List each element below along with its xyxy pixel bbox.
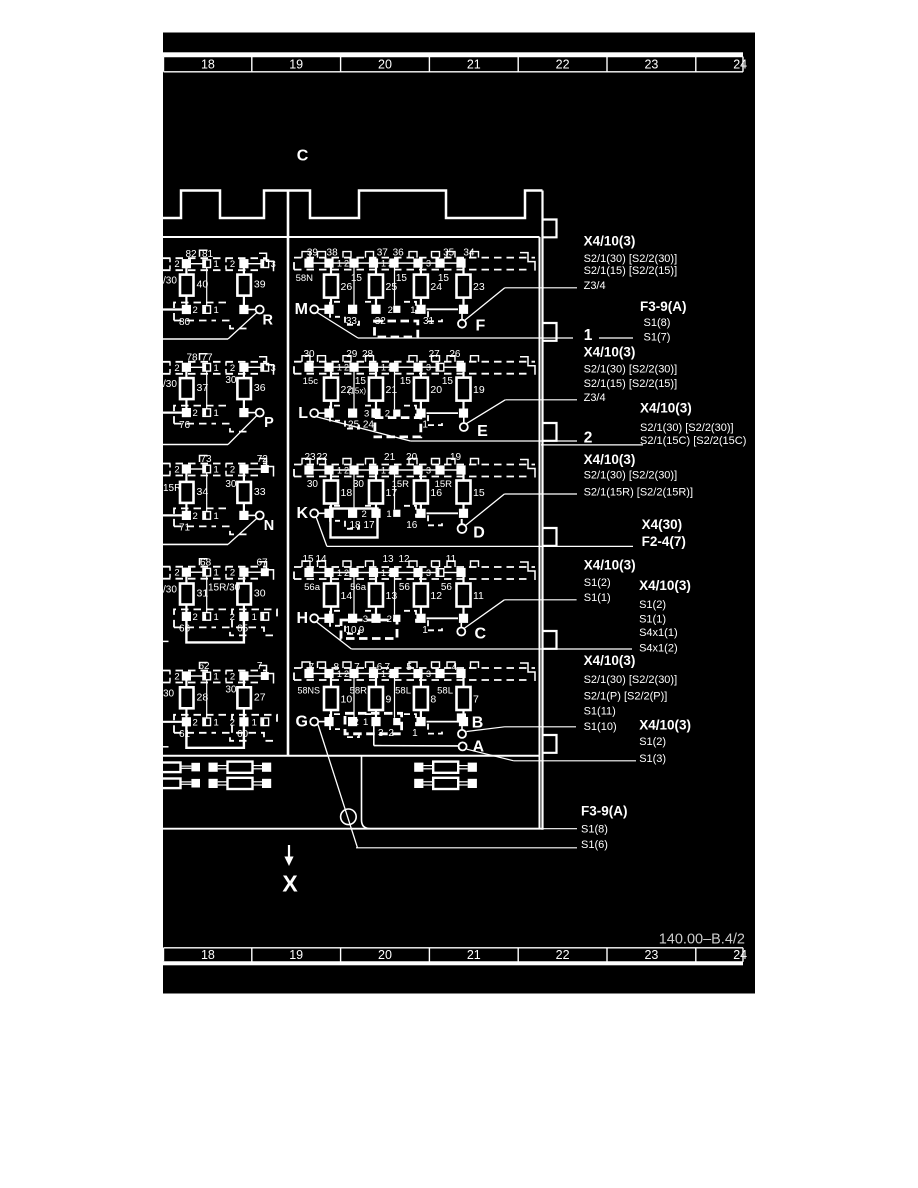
svg-text:1: 1 xyxy=(214,363,219,374)
row 4R terminal dashed outline xyxy=(294,566,535,568)
svg-text:Z3/4: Z3/4 xyxy=(584,392,606,404)
svg-text:1: 1 xyxy=(214,305,219,316)
svg-text:12: 12 xyxy=(398,554,410,565)
row 4R lower dashed outline xyxy=(330,611,340,626)
svg-text:2: 2 xyxy=(388,465,393,475)
svg-text:56a: 56a xyxy=(350,582,367,593)
row 1L contact squares bottom xyxy=(163,308,182,310)
terminal D and wire to S2/1(15R) xyxy=(461,519,463,524)
relay contact 13 (row 4R) xyxy=(375,577,377,584)
row 2L terminal dashed outline xyxy=(163,361,267,363)
row 3L outline ticks xyxy=(169,464,171,476)
svg-text:19: 19 xyxy=(289,57,303,71)
svg-text:1: 1 xyxy=(381,568,386,578)
relay contact 37 (row 2L) xyxy=(185,372,187,378)
row 1R heavy dashed box xyxy=(375,321,418,337)
svg-text:33: 33 xyxy=(254,486,266,498)
relay contact 15 (row 3R) xyxy=(462,474,464,480)
svg-text:3: 3 xyxy=(426,258,431,268)
svg-text:30: 30 xyxy=(303,349,315,360)
svg-text:G: G xyxy=(296,713,308,730)
svg-text:11: 11 xyxy=(446,554,457,565)
row 5L link wire open contacts xyxy=(206,680,208,718)
relay contact 40 (row 1L) xyxy=(185,268,187,275)
relay contact 22 (row 2R) xyxy=(330,372,332,378)
svg-text:S1(10): S1(10) xyxy=(584,721,617,733)
svg-text:F2-4(7): F2-4(7) xyxy=(642,534,686,549)
svg-text:1: 1 xyxy=(337,363,342,373)
svg-text:3: 3 xyxy=(426,669,431,679)
svg-text:S2/1(30) [S2/2(30)]: S2/1(30) [S2/2(30)] xyxy=(640,422,734,434)
svg-text:31: 31 xyxy=(423,316,435,327)
svg-text:S2/1(30) [S2/2(30)]: S2/1(30) [S2/2(30)] xyxy=(584,470,678,482)
row 5R contact squares bottom xyxy=(324,717,333,726)
svg-text:58L: 58L xyxy=(437,686,453,697)
row 3R link wires xyxy=(353,474,355,510)
svg-text:2: 2 xyxy=(388,669,393,679)
row 5R heavy dashed box xyxy=(345,713,402,734)
svg-text:26: 26 xyxy=(449,349,461,360)
lower section fuse link unit A1 xyxy=(209,763,218,772)
row 4L contact squares bottom xyxy=(182,612,191,621)
outer box bottom edge xyxy=(163,828,543,830)
svg-text:2: 2 xyxy=(388,363,393,373)
svg-text:1: 1 xyxy=(381,258,386,268)
relay contact 7 (row 5R) xyxy=(462,678,464,687)
svg-text:10: 10 xyxy=(341,694,353,706)
rows bottom line xyxy=(163,755,540,757)
svg-text:2: 2 xyxy=(193,612,198,623)
terminal ring near box corner xyxy=(341,809,357,825)
svg-text:X4/10(3): X4/10(3) xyxy=(640,401,692,416)
row 1L bracket step xyxy=(259,253,274,271)
svg-text:3: 3 xyxy=(271,259,276,270)
svg-text:2: 2 xyxy=(388,258,393,268)
svg-text:7: 7 xyxy=(257,661,263,672)
row 3L lower dashed outline xyxy=(174,508,230,526)
callout line S4x1(2) from H xyxy=(351,648,632,650)
svg-text:S2/1(30) [S2/2(30)]: S2/1(30) [S2/2(30)] xyxy=(584,674,678,686)
svg-text:82: 82 xyxy=(185,249,197,260)
svg-text:76: 76 xyxy=(179,420,191,431)
svg-text:35: 35 xyxy=(443,248,455,259)
svg-text:140.00–B.4/2: 140.00–B.4/2 xyxy=(659,932,745,948)
row 3R lower dashed outline xyxy=(330,506,340,521)
svg-text:3: 3 xyxy=(426,568,431,578)
svg-text:S1(2): S1(2) xyxy=(639,736,666,748)
svg-text:37: 37 xyxy=(377,248,389,259)
right edge connector tab 5 xyxy=(543,631,557,649)
svg-text:29: 29 xyxy=(346,349,358,360)
svg-text:2: 2 xyxy=(193,511,198,522)
svg-text:1: 1 xyxy=(252,717,257,728)
svg-text:1: 1 xyxy=(412,728,418,739)
svg-text:E: E xyxy=(477,423,488,440)
svg-text:56a: 56a xyxy=(304,582,321,593)
svg-text:C: C xyxy=(297,148,309,165)
relay contact 27 (row 5L) xyxy=(243,680,245,687)
row 1R terminal dashed outline xyxy=(294,257,535,259)
svg-text:C: C xyxy=(475,626,487,643)
svg-text:2: 2 xyxy=(230,465,235,476)
svg-text:1: 1 xyxy=(381,363,386,373)
row 2L lower dashed outline xyxy=(174,406,230,424)
svg-text:9: 9 xyxy=(386,694,392,706)
svg-text:H: H xyxy=(296,610,308,627)
svg-text:2: 2 xyxy=(344,568,349,578)
relay contact 19 (row 2R) xyxy=(462,372,464,378)
svg-text:58N: 58N xyxy=(296,273,314,284)
callout line S1(3) from A xyxy=(514,760,636,762)
svg-text:30: 30 xyxy=(163,688,175,699)
svg-text:23: 23 xyxy=(644,57,658,71)
svg-text:19: 19 xyxy=(289,948,303,962)
inner box right edge rail xyxy=(539,237,541,829)
row 1L lower dashed outline xyxy=(174,303,230,321)
row 2L link wire open contacts xyxy=(206,371,208,409)
top ruler band xyxy=(163,52,743,56)
right edge connector tab 1 xyxy=(543,220,557,238)
svg-text:S1(8): S1(8) xyxy=(644,317,671,329)
svg-text:S2/1(15R) [S2/2(15R)]: S2/1(15R) [S2/2(15R)] xyxy=(584,487,693,499)
relay contact 11 (row 4R) xyxy=(462,577,464,584)
wire G to terminal ring xyxy=(318,725,358,848)
svg-text:21: 21 xyxy=(386,384,398,396)
svg-text:27: 27 xyxy=(254,691,266,703)
svg-text:F: F xyxy=(476,318,486,335)
row 1R lower dashed outline xyxy=(330,302,340,317)
row 1L link wire open contacts xyxy=(206,268,208,306)
svg-text:67: 67 xyxy=(256,557,268,568)
svg-text:2: 2 xyxy=(388,305,393,316)
svg-text:1: 1 xyxy=(214,465,219,476)
svg-text:2: 2 xyxy=(361,509,366,520)
svg-text:3: 3 xyxy=(426,465,431,475)
relay contact 10 (row 5R) xyxy=(330,678,332,687)
svg-text:58L: 58L xyxy=(395,686,411,697)
row 4L bracket step xyxy=(259,562,274,580)
relay contact 18 (row 3R) xyxy=(330,474,332,480)
right edge connector tab 2 xyxy=(543,323,557,341)
svg-text:17: 17 xyxy=(363,520,375,531)
svg-text:N: N xyxy=(264,518,274,534)
svg-text:1: 1 xyxy=(337,465,342,475)
svg-text:39: 39 xyxy=(254,279,266,291)
row 1R contact squares bottom xyxy=(324,305,333,314)
svg-text:X4/10(3): X4/10(3) xyxy=(584,452,636,467)
svg-text:L: L xyxy=(298,405,308,422)
svg-text:2: 2 xyxy=(344,465,349,475)
lower section fuse link row 2 left (cut) xyxy=(159,779,181,789)
svg-text:20: 20 xyxy=(406,452,418,463)
svg-text:1: 1 xyxy=(214,717,219,728)
row 2R terminal dashed outline xyxy=(294,361,535,363)
svg-text:30: 30 xyxy=(307,479,319,490)
relay contact 8 (row 5R) xyxy=(420,678,422,687)
svg-text:36: 36 xyxy=(393,248,405,259)
svg-text:2: 2 xyxy=(230,672,235,683)
svg-text:21: 21 xyxy=(384,452,396,463)
svg-text:71: 71 xyxy=(179,523,191,534)
svg-text:1: 1 xyxy=(214,612,219,623)
wire from P to row line xyxy=(228,416,257,445)
svg-text:F3-9(A): F3-9(A) xyxy=(581,803,628,818)
svg-text:22: 22 xyxy=(556,948,570,962)
row 5L U link xyxy=(186,726,244,748)
svg-text:S2/1(15) [S2/2(15)]: S2/1(15) [S2/2(15)] xyxy=(584,265,678,277)
relay contact 14 (row 4R) xyxy=(330,577,332,584)
row 1R contact squares top xyxy=(304,259,313,268)
row 2L bracket step xyxy=(259,357,274,375)
row 2R contact squares bottom xyxy=(324,409,333,418)
svg-text:2: 2 xyxy=(193,717,198,728)
relay contact 16 (row 3R) xyxy=(420,474,422,480)
svg-text:S1(2): S1(2) xyxy=(584,577,611,589)
row 4R heavy dashed box xyxy=(341,620,397,639)
svg-text:8: 8 xyxy=(430,694,436,706)
svg-text:18: 18 xyxy=(201,948,215,962)
row 2L boundary line xyxy=(163,444,228,446)
svg-text:S1(6): S1(6) xyxy=(581,839,608,851)
relay contact 26 (row 1R) xyxy=(330,268,332,275)
svg-text:21: 21 xyxy=(467,57,481,71)
svg-text:38: 38 xyxy=(327,248,339,259)
svg-text:30: 30 xyxy=(254,588,266,600)
svg-text:S1(2): S1(2) xyxy=(639,599,666,611)
svg-text:9: 9 xyxy=(359,625,365,636)
svg-text:X: X xyxy=(282,871,298,897)
svg-text:2: 2 xyxy=(388,568,393,578)
wire L to callout 2 xyxy=(315,416,410,441)
svg-text:1: 1 xyxy=(410,305,415,316)
right edge connector tab 6 xyxy=(543,735,557,753)
relay contact 25 (row 1R) xyxy=(375,268,377,275)
svg-text:S1(1): S1(1) xyxy=(584,592,611,604)
svg-text:15: 15 xyxy=(442,376,454,387)
svg-text:24: 24 xyxy=(430,281,442,293)
svg-text:X4/10(3): X4/10(3) xyxy=(639,578,691,593)
svg-text:15R: 15R xyxy=(163,483,181,494)
row 2R link wires xyxy=(353,371,355,409)
row 1L terminal dashed outline xyxy=(163,257,267,259)
callout line 2 from L xyxy=(410,440,577,442)
svg-text:56: 56 xyxy=(441,582,453,593)
svg-text:28: 28 xyxy=(362,349,374,360)
svg-text:1: 1 xyxy=(252,612,257,623)
svg-text:2: 2 xyxy=(584,430,593,447)
svg-text:X4/10(3): X4/10(3) xyxy=(584,558,636,573)
svg-text:7: 7 xyxy=(473,694,479,706)
svg-text:10: 10 xyxy=(345,625,357,636)
row 3R solid box xyxy=(331,509,378,538)
wire M to callout 1 xyxy=(317,312,359,338)
lower section fuse link unit A2 xyxy=(209,779,218,788)
svg-text:24: 24 xyxy=(733,57,747,71)
row 2L outline ticks xyxy=(169,362,171,374)
svg-text:56: 56 xyxy=(399,582,411,593)
svg-text:5: 5 xyxy=(406,662,412,673)
row 4R link wires xyxy=(353,576,355,614)
svg-text:39: 39 xyxy=(307,248,319,259)
row 3R terminal dashed outline xyxy=(294,464,535,466)
row 5R link wires xyxy=(353,677,355,718)
svg-text:18: 18 xyxy=(201,57,215,71)
terminal A and its feed wire xyxy=(373,722,375,746)
svg-text:1: 1 xyxy=(214,511,219,522)
svg-text:22: 22 xyxy=(556,57,570,71)
svg-text:/30: /30 xyxy=(163,276,177,287)
right edge connector tab 3 xyxy=(543,423,557,441)
svg-text:13: 13 xyxy=(382,554,394,565)
svg-text:S2/1(15C) [S2/2(15C): S2/1(15C) [S2/2(15C) xyxy=(640,435,746,447)
svg-text:2: 2 xyxy=(193,305,198,316)
svg-text:/30: /30 xyxy=(163,585,177,596)
relay contact 23 (row 1R) xyxy=(462,268,464,275)
terminal R (row 1L) xyxy=(248,309,255,311)
relay contact 24 (row 1R) xyxy=(420,268,422,275)
svg-text:2: 2 xyxy=(230,259,235,270)
svg-text:15c: 15c xyxy=(303,376,319,387)
svg-text:58R: 58R xyxy=(350,686,368,697)
callout line 1 from M xyxy=(358,337,573,339)
svg-text:15: 15 xyxy=(355,376,367,387)
svg-text:12: 12 xyxy=(430,590,442,602)
svg-text:X4/10(3): X4/10(3) xyxy=(584,234,636,249)
wire from N to row line xyxy=(228,518,257,544)
row 5R terminal dashed outline xyxy=(294,667,535,669)
svg-text:3: 3 xyxy=(271,363,276,374)
callout line S1(8) bottom xyxy=(543,828,578,830)
svg-text:X4/10(3): X4/10(3) xyxy=(584,344,636,359)
svg-text:S1(7): S1(7) xyxy=(644,331,671,343)
svg-text:X4(30): X4(30) xyxy=(642,517,683,532)
relay contact 28 (row 5L) xyxy=(185,680,187,687)
svg-text:21: 21 xyxy=(467,948,481,962)
svg-text:Z3/4: Z3/4 xyxy=(584,280,606,292)
wire A to S1(3) xyxy=(467,749,514,761)
svg-text:16: 16 xyxy=(406,520,418,531)
lower section fuse link unit B2 xyxy=(414,779,423,788)
terminal P (row 2L) xyxy=(248,412,255,414)
svg-text:27: 27 xyxy=(429,349,441,360)
relay contact 33 (row 3L) xyxy=(243,473,245,482)
svg-text:30: 30 xyxy=(225,375,237,386)
svg-text:2: 2 xyxy=(174,259,179,270)
row 4L link wire open contacts xyxy=(206,576,208,613)
svg-text:1: 1 xyxy=(386,509,391,520)
svg-text:19: 19 xyxy=(450,452,462,463)
terminal B and wire to S1(10) xyxy=(457,713,466,722)
svg-text:R: R xyxy=(262,313,273,329)
svg-text:S2/1(30) [S2/2(30)]: S2/1(30) [S2/2(30)] xyxy=(584,364,678,376)
svg-text:66: 66 xyxy=(179,624,191,635)
callout line Z3/4 row2 from E xyxy=(505,399,577,401)
svg-text:S4x1(1): S4x1(1) xyxy=(639,627,678,639)
relay contact 12 (row 4R) xyxy=(420,577,422,584)
row 2L contact squares bottom xyxy=(163,412,182,414)
svg-text:15: 15 xyxy=(473,487,485,499)
relay contact 17 (row 3R) xyxy=(375,474,377,480)
svg-text:2: 2 xyxy=(344,258,349,268)
row 2R contact squares top xyxy=(304,363,313,372)
row 2R lower dashed outline xyxy=(330,406,340,421)
svg-text:2: 2 xyxy=(174,465,179,476)
svg-text:1: 1 xyxy=(214,408,219,419)
svg-text:2: 2 xyxy=(174,568,179,579)
svg-text:14: 14 xyxy=(315,554,327,565)
svg-text:81: 81 xyxy=(202,249,214,260)
svg-text:20: 20 xyxy=(430,384,442,396)
svg-text:77: 77 xyxy=(201,353,213,364)
row 3L bracket step xyxy=(259,459,274,477)
svg-text:1: 1 xyxy=(363,717,368,728)
row 3R contact squares bottom xyxy=(324,509,333,518)
svg-text:36: 36 xyxy=(254,382,266,394)
callout line S2/1(15C) xyxy=(541,444,643,446)
svg-text:15: 15 xyxy=(396,273,408,284)
svg-text:M: M xyxy=(295,301,308,318)
row 1L boundary line xyxy=(163,338,228,340)
svg-text:80: 80 xyxy=(179,317,191,328)
outer box castellated top edge xyxy=(163,191,543,219)
terminal N (row 3L) xyxy=(248,514,255,516)
svg-text:K: K xyxy=(296,505,308,522)
svg-text:1: 1 xyxy=(381,465,386,475)
svg-text:30: 30 xyxy=(225,479,237,490)
column divider line below C xyxy=(287,191,290,756)
svg-text:1: 1 xyxy=(337,669,342,679)
svg-text:2: 2 xyxy=(193,408,198,419)
svg-text:78: 78 xyxy=(186,353,198,364)
svg-text:2: 2 xyxy=(344,363,349,373)
svg-text:61: 61 xyxy=(179,729,191,740)
svg-text:3: 3 xyxy=(364,409,369,420)
svg-text:23: 23 xyxy=(304,452,316,463)
relay contact 39 (row 1L) xyxy=(243,268,245,275)
wire from R to row line xyxy=(228,313,257,340)
svg-text:D: D xyxy=(473,525,485,542)
right edge connector tab 4 xyxy=(543,528,557,546)
row 5R contact squares top xyxy=(304,669,313,678)
row 3L contact squares bottom xyxy=(163,514,182,516)
svg-text:1: 1 xyxy=(214,259,219,270)
callout line S1(6) from G xyxy=(356,847,577,849)
svg-text:1: 1 xyxy=(422,420,428,431)
svg-text:15: 15 xyxy=(400,376,412,387)
outer box right edge rail xyxy=(541,191,543,830)
svg-text:62: 62 xyxy=(198,661,210,672)
relay contact 30 (row 4L) xyxy=(243,577,245,584)
svg-text:13: 13 xyxy=(386,590,398,602)
svg-text:11: 11 xyxy=(473,590,484,602)
black diagram background xyxy=(163,33,755,994)
row 3L terminal dashed outline xyxy=(163,463,267,465)
svg-text:S2/1(15) [S2/2(15)]: S2/1(15) [S2/2(15)] xyxy=(584,378,678,390)
svg-text:/30: /30 xyxy=(163,379,177,390)
relay contact 34 (row 3L) xyxy=(185,473,187,482)
svg-text:S2/1(P) [S2/2(P)]: S2/1(P) [S2/2(P)] xyxy=(584,690,668,702)
svg-text:S1(1): S1(1) xyxy=(639,614,666,626)
row 4L outline ticks xyxy=(169,567,171,579)
svg-text:1: 1 xyxy=(214,568,219,579)
svg-text:1: 1 xyxy=(337,258,342,268)
row 4L terminal dashed outline xyxy=(163,566,267,568)
svg-text:20: 20 xyxy=(378,57,392,71)
terminal F and wire to Z3/4 xyxy=(461,314,463,320)
lower section fuse link row 1 left (cut) xyxy=(159,763,181,773)
row 5L bracket step xyxy=(259,666,274,684)
arrow down to X xyxy=(288,845,290,858)
